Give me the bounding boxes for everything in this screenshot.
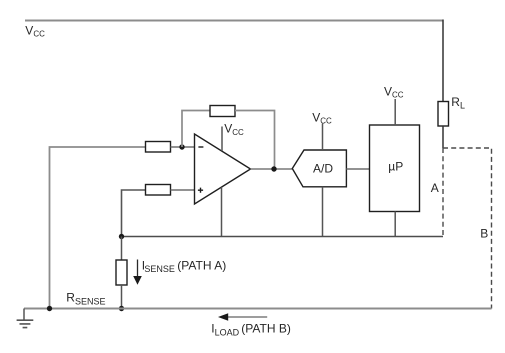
wire uP Vcc lead xyxy=(394,99,396,125)
wire uP ground lead xyxy=(394,212,396,237)
arrow ILOAD path B current xyxy=(228,316,268,318)
svg-text:µP: µP xyxy=(388,159,403,173)
wire bottom load rail xyxy=(24,308,492,310)
microprocessor uP U3 xyxy=(370,125,420,212)
wire A/D ground lead xyxy=(322,187,324,237)
wire common return bus xyxy=(122,236,444,238)
arrow ISENSE path A current xyxy=(137,260,139,277)
wire dashed path A xyxy=(442,148,444,237)
op-amp plus sign xyxy=(198,188,203,193)
wire dashed path B xyxy=(443,148,492,309)
wire to op-amp plus xyxy=(171,189,195,191)
resistor feedback xyxy=(210,106,235,117)
svg-text:B: B xyxy=(480,226,488,240)
node junction dot bus left xyxy=(119,234,124,239)
svg-text:A/D: A/D xyxy=(313,162,333,176)
resistor RL xyxy=(438,102,449,127)
node junction dot inverting xyxy=(179,144,184,149)
op-amp minus sign xyxy=(198,146,203,148)
wire A/D Vcc lead xyxy=(322,124,324,151)
resistor input non-inverting xyxy=(146,185,171,196)
node junction dot ground left xyxy=(47,306,52,311)
wire op-amp ground lead xyxy=(221,187,223,236)
node junction dot RSENSE bottom xyxy=(119,306,124,311)
wire op-amp Vcc lead xyxy=(221,127,223,152)
resistor input inverting xyxy=(146,142,171,153)
wire feedback left xyxy=(182,111,210,148)
wire non-inverting input xyxy=(122,190,146,237)
wire feedback right xyxy=(235,111,275,170)
op-amp U1 xyxy=(195,134,251,204)
wire Vcc top rail xyxy=(25,20,443,22)
wire A/D to uP xyxy=(346,168,369,170)
resistor RSENSE xyxy=(121,237,123,261)
wire op-amp output xyxy=(251,168,293,170)
ground xyxy=(23,309,25,321)
wire RL bottom lead xyxy=(442,126,444,148)
wire to op-amp minus xyxy=(171,146,195,148)
wire right vertical to RL xyxy=(442,20,444,102)
A/D converter U2 xyxy=(292,150,346,187)
node junction dot output xyxy=(271,166,276,171)
svg-text:A: A xyxy=(431,181,439,195)
wire left vertical and inverting input xyxy=(50,147,146,309)
